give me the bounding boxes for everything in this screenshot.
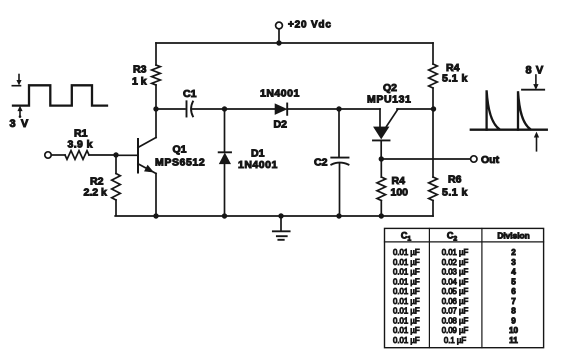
- svg-text:2: 2: [511, 248, 516, 257]
- svg-text:0.01 µF: 0.01 µF: [442, 248, 469, 257]
- svg-text:R6: R6: [448, 174, 462, 186]
- svg-text:+20 Vdc: +20 Vdc: [288, 20, 332, 31]
- svg-text:1N4001: 1N4001: [238, 159, 278, 171]
- svg-text:8 V: 8 V: [526, 65, 544, 77]
- svg-text:0.01 µF: 0.01 µF: [393, 277, 420, 286]
- svg-text:C1: C1: [401, 230, 412, 242]
- svg-text:100: 100: [391, 187, 409, 199]
- svg-text:0.07 µF: 0.07 µF: [442, 307, 469, 316]
- svg-text:R4: R4: [392, 175, 406, 187]
- svg-text:11: 11: [509, 336, 518, 345]
- svg-text:0.1 µF: 0.1 µF: [444, 336, 466, 345]
- svg-text:1N4001: 1N4001: [260, 88, 300, 100]
- svg-text:R3: R3: [133, 64, 147, 76]
- svg-text:2.2 k: 2.2 k: [84, 187, 108, 199]
- svg-text:0.09 µF: 0.09 µF: [442, 326, 469, 335]
- svg-text:0.02 µF: 0.02 µF: [442, 258, 469, 267]
- svg-text:0.01 µF: 0.01 µF: [393, 336, 420, 345]
- svg-text:0.01 µF: 0.01 µF: [393, 287, 420, 296]
- svg-text:0.01 µF: 0.01 µF: [393, 316, 420, 325]
- svg-text:3 V: 3 V: [10, 118, 30, 130]
- svg-text:Q2: Q2: [383, 82, 397, 94]
- svg-text:0.03 µF: 0.03 µF: [442, 268, 469, 277]
- svg-text:0.06 µF: 0.06 µF: [442, 297, 469, 306]
- svg-text:C2: C2: [447, 230, 458, 242]
- svg-text:3: 3: [511, 258, 516, 267]
- svg-text:0.01 µF: 0.01 µF: [393, 268, 420, 277]
- svg-text:C2: C2: [314, 157, 328, 169]
- svg-text:Q1: Q1: [173, 144, 187, 156]
- svg-text:Out: Out: [481, 154, 500, 166]
- svg-text:0.05 µF: 0.05 µF: [442, 287, 469, 296]
- svg-text:1 k: 1 k: [132, 76, 147, 88]
- svg-text:7: 7: [511, 297, 516, 306]
- svg-text:Division: Division: [497, 230, 529, 240]
- svg-text:0.01 µF: 0.01 µF: [393, 307, 420, 316]
- svg-text:4: 4: [511, 268, 516, 277]
- svg-text:0.01 µF: 0.01 µF: [393, 248, 420, 257]
- svg-text:5.1 k: 5.1 k: [442, 73, 468, 85]
- svg-text:MPU131: MPU131: [367, 94, 411, 106]
- svg-text:5.1 k: 5.1 k: [442, 187, 468, 199]
- svg-text:D2: D2: [274, 119, 288, 131]
- svg-text:10: 10: [509, 326, 519, 335]
- svg-text:6: 6: [511, 287, 516, 296]
- svg-text:8: 8: [511, 307, 516, 316]
- svg-text:5: 5: [511, 277, 516, 286]
- svg-text:0.01 µF: 0.01 µF: [393, 258, 420, 267]
- svg-text:9: 9: [511, 316, 516, 325]
- svg-text:MPS6512: MPS6512: [155, 157, 205, 169]
- svg-text:3.9 k: 3.9 k: [68, 139, 93, 151]
- svg-text:D1: D1: [251, 148, 265, 160]
- svg-text:0.01 µF: 0.01 µF: [393, 297, 420, 306]
- svg-text:0.01 µF: 0.01 µF: [393, 326, 420, 335]
- svg-text:0.08 µF: 0.08 µF: [442, 316, 469, 325]
- svg-text:0.04 µF: 0.04 µF: [442, 277, 469, 286]
- svg-text:C1: C1: [183, 88, 197, 100]
